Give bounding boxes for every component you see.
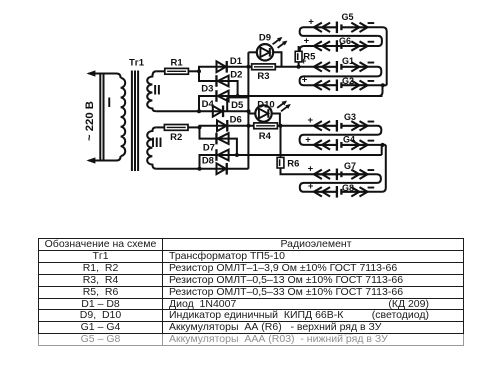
svg-text:D1: D1: [230, 56, 243, 67]
wire: node A through D1 to positive rail / R3: [199, 67, 252, 72]
svg-text:+: +: [308, 164, 314, 175]
wire: winding II bottom to node B: [156, 110, 199, 112]
wire: R4 output feed to G3 row: [275, 125, 314, 127]
svg-text:D4: D4: [202, 99, 215, 110]
svg-text:+: +: [308, 17, 314, 28]
svg-text:R2: R2: [170, 132, 182, 143]
wire: R1 to node A: [188, 70, 199, 72]
battery group G6: [314, 40, 368, 52]
battery group G4: [314, 139, 368, 151]
svg-text:II: II: [153, 82, 161, 97]
diode D4: [213, 106, 224, 118]
svg-text:Тг1: Тг1: [129, 57, 145, 68]
wire: winding III top to R2: [156, 126, 164, 128]
wire: G3 right U-turn, return, left U-turn to G4: [300, 126, 382, 145]
svg-text:~ 220 В: ~ 220 В: [84, 101, 96, 141]
wire: positive rail to LED D10: [248, 113, 255, 115]
svg-text:D7: D7: [203, 142, 215, 153]
wire: G7 right U-turn, return, left U-turn to G8: [300, 174, 381, 192]
wire: G4 node down to G8 row: [368, 145, 386, 192]
svg-text:+: +: [308, 115, 314, 126]
svg-text:+: +: [308, 181, 314, 192]
component designation table: [38, 238, 464, 346]
wire: node C through D6 to R4: [200, 126, 256, 128]
wire: winding III bottom to node D: [156, 168, 199, 170]
transformer Tr1 secondary winding II: [147, 71, 156, 111]
mains terminal arrow (bottom): [86, 157, 95, 163]
junction: R5 / feed row: [297, 65, 301, 69]
diode D2: [215, 75, 228, 87]
svg-text:D9: D9: [259, 32, 271, 43]
wire: node C down through D7: [200, 127, 237, 155]
svg-text:G1: G1: [342, 56, 354, 66]
svg-text:+: +: [305, 134, 311, 145]
svg-text:G8: G8: [342, 183, 354, 193]
svg-text:D8: D8: [202, 156, 214, 167]
transformer Tr1 secondary winding III: [147, 127, 156, 168]
wire: R3 output feed to G1 row: [274, 66, 314, 68]
wire: G5 row with left U-turn and return line: [300, 27, 378, 36]
transformer Tr1 primary winding I: [121, 78, 126, 156]
diode D7: [215, 133, 228, 145]
wire: D5 label box left edge: [226, 97, 228, 111]
wire: G6 row left corner down to R5: [300, 46, 314, 51]
battery group G7: [314, 169, 368, 181]
resistor R1: [165, 68, 189, 74]
svg-text:+: +: [301, 56, 307, 67]
node D junction: [198, 167, 202, 171]
svg-text:G6: G6: [339, 36, 351, 46]
junction: bottom negative bus / D7 branch: [235, 153, 239, 157]
svg-text:G2: G2: [342, 76, 354, 86]
wire: positive rail vertical: [247, 52, 249, 169]
diode D3: [215, 90, 228, 102]
wire: branch down to R6: [280, 126, 282, 157]
junction: positive rail / D4 row: [247, 109, 251, 113]
svg-text:R4: R4: [259, 131, 272, 142]
wire: winding II top to R1: [156, 70, 164, 72]
svg-text:R1: R1: [171, 58, 184, 69]
svg-text:G5: G5: [341, 12, 353, 22]
battery group G1: [314, 61, 368, 73]
svg-text:D2: D2: [230, 69, 242, 80]
wire: R2 to node C: [188, 126, 200, 128]
svg-text:D3: D3: [201, 84, 213, 95]
diode D6: [217, 120, 228, 132]
wire: G5 right end down to G2 node: [368, 27, 387, 85]
wire: positive rail to LED D9: [248, 51, 256, 53]
wire: G2 node corner down to top negative bus: [379, 85, 383, 96]
svg-text:I: I: [107, 95, 111, 110]
wire: mains pair line (right): [103, 74, 105, 161]
resistor R4: [254, 123, 278, 129]
resistor R2: [164, 125, 188, 131]
svg-text:R3: R3: [257, 71, 269, 82]
wire: G7 row: [314, 173, 368, 175]
wire: R5 bottom lead: [298, 62, 300, 67]
svg-text:D5: D5: [231, 100, 244, 111]
node C junction: [198, 125, 202, 129]
node A junction: [197, 69, 201, 73]
junction: G2 right end node: [381, 83, 385, 87]
wire: node A down through D2 to top negative bus: [199, 71, 238, 96]
wire: R6 bottom lead to G7 row: [281, 168, 314, 174]
wire: R5 top lead to G6 row: [298, 46, 300, 51]
svg-text:III: III: [151, 135, 162, 150]
wire: mains pair line (left): [99, 74, 101, 161]
junction: positive rail / D6 row: [247, 124, 251, 128]
svg-text:D10: D10: [257, 100, 274, 111]
wire: node B through D4 to positive rail: [199, 110, 249, 112]
svg-text:D6: D6: [230, 115, 242, 126]
diode D1: [217, 61, 228, 73]
mains terminal arrow (top): [86, 70, 95, 76]
diode (bottom of D5-D8 group): [217, 163, 228, 175]
svg-text:G3: G3: [344, 112, 356, 122]
svg-text:+: +: [302, 75, 308, 86]
LED D10 (indicator): [255, 105, 271, 121]
battery group G8: [314, 186, 368, 198]
resistor R3: [252, 64, 276, 70]
wire: mains top lead to primary winding: [89, 74, 121, 79]
wire: node D through bottom diode to positive rail: [200, 168, 249, 170]
battery group G5: [314, 22, 368, 34]
battery group G2: [314, 79, 368, 91]
resistor R6: [277, 157, 284, 168]
wire: bottom negative bus corner up to G4 node: [381, 145, 383, 155]
battery group G3: [314, 120, 368, 132]
wire: G1 right U-turn, return, left U-turn to G2: [300, 67, 382, 85]
wire: G4 row right end: [368, 144, 386, 146]
junction: G4 right end node: [381, 143, 385, 147]
LED D9 (indicator): [257, 44, 273, 60]
wire: top negative bus: [238, 95, 383, 97]
svg-text:G4: G4: [343, 135, 355, 145]
wire: G2 row right end: [368, 84, 387, 86]
node B junction: [197, 109, 201, 113]
svg-text:R6: R6: [287, 159, 299, 170]
wire: D5 label box top edge: [227, 96, 248, 98]
svg-text:G7: G7: [344, 161, 356, 171]
wire: LED D10 to feed node: [271, 114, 280, 126]
wire: LED D9 to feed node: [273, 52, 281, 67]
wire: node B up through D3: [199, 96, 238, 111]
junction: top negative bus corner: [236, 94, 240, 98]
junction: R6 branch / feed row: [279, 124, 283, 128]
wire: return line corner down to G6 row: [314, 36, 382, 46]
diode D8: [215, 149, 228, 161]
wire: mains bottom lead to primary winding: [89, 156, 121, 161]
wire: node D up through D8 / bottom negative bus: [200, 155, 382, 169]
svg-text:+: +: [304, 35, 310, 46]
transformer Tr1 core: [132, 71, 138, 172]
junction: positive rail / D1 row: [246, 65, 250, 69]
resistor R5: [295, 51, 302, 62]
